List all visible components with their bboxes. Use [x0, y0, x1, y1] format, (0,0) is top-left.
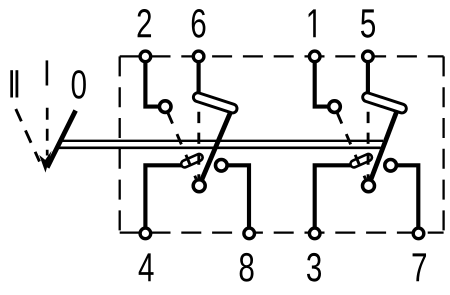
switch enclosure dashed border, bottom edge: [120, 231, 444, 233]
pole 1: dashed centre position line: [197, 112, 200, 179]
actuator bar, lower rail: [58, 147, 381, 150]
position I dashed travel line: [46, 108, 49, 156]
pole 2: upper rocker contact pad: [362, 92, 408, 114]
switch enclosure dashed border, right edge: [442, 56, 444, 232]
pole 2: wire from terminal 3 to lower contact rail: [315, 165, 351, 233]
pole 1: lower fixed contact circle: [216, 160, 228, 172]
pole 2: wire from lower fixed contact to terminal 7: [391, 165, 419, 233]
actuator bar, upper rail: [61, 140, 383, 142]
pole 1: wire from terminal 6 to rocker contact pad: [197, 56, 201, 95]
pole 2: terminal 7 circle: [413, 228, 424, 239]
pole 2: wire from terminal 1 to open contact: [315, 56, 330, 106]
pole 2: terminal 1 circle: [309, 51, 320, 62]
pole 1: wire from lower fixed contact to terminal 8: [221, 165, 249, 233]
pole 2: dashed centre position line: [367, 112, 370, 179]
pole 1: terminal 6 circle: [193, 51, 204, 62]
pole 1: wire from terminal 4 to lower contact rail: [145, 165, 181, 233]
terminal label 8: [240, 253, 254, 282]
pole 2: terminal 3 circle: [309, 228, 320, 239]
pole 1: terminal 4 circle: [140, 228, 151, 239]
pole 1: pivot circle: [193, 180, 205, 192]
pole 2: open fixed contact circle: [329, 101, 341, 113]
terminal label 2: [138, 9, 151, 37]
pole 1: upper rocker contact pad: [192, 92, 238, 114]
pole 2: rocker lever: [369, 112, 397, 186]
position II dashed travel line: [16, 109, 40, 162]
pole 2: lower fixed contact circle: [385, 160, 397, 172]
pole 2: pivot circle: [363, 180, 375, 192]
pole 1: lower bridge contact pad: [180, 153, 204, 169]
pole 1: dashed travel line to open contact: [168, 113, 196, 179]
pole 1: rocker lever: [199, 112, 230, 186]
pole 1: open fixed contact circle: [159, 101, 171, 113]
switch enclosure dashed border, top edge: [120, 55, 444, 57]
pole 1: terminal 8 circle: [244, 228, 255, 239]
pole 2: dashed travel line to open contact: [337, 113, 365, 179]
terminal label 4: [139, 253, 154, 281]
pole 1: terminal 2 circle: [140, 51, 151, 62]
position I label: [46, 60, 49, 85]
terminal label 3: [307, 253, 321, 282]
terminal label 7: [413, 253, 426, 281]
pole 2: terminal 5 circle: [363, 51, 374, 62]
terminal label 6: [192, 9, 206, 38]
pole 2: wire from terminal 5 to rocker contact pad: [366, 56, 370, 95]
pole 2: lower bridge contact pad: [349, 153, 373, 169]
position 0 label: [72, 70, 86, 99]
actuator lever shown in position 0: [47, 111, 75, 168]
pole 1: wire from terminal 2 to open contact: [145, 56, 160, 106]
terminal label 1: [309, 9, 316, 37]
terminal label 5: [361, 9, 375, 37]
actuator arrowhead: [39, 151, 51, 173]
switch enclosure dashed border, left edge: [119, 56, 121, 232]
position II label: [10, 70, 18, 97]
